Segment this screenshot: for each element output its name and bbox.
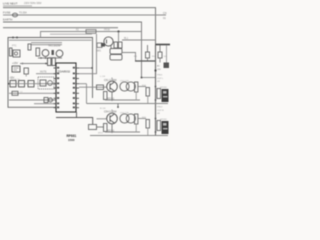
fuse F2 [86, 30, 96, 34]
capacitor C52 [120, 82, 129, 91]
label channel1 row1 [100, 76, 105, 78]
svg-text:PTC: PTC [12, 46, 17, 48]
svg-text:MUTE: MUTE [40, 72, 47, 74]
svg-text:L CH: L CH [100, 76, 105, 78]
svg-text:230V 50Hz 90W: 230V 50Hz 90W [24, 2, 42, 5]
label F2 [76, 30, 79, 32]
wire ch2 collector feed [117, 104, 119, 109]
junction ch2 rail [155, 118, 157, 133]
mosfet Q3 [162, 89, 169, 102]
wire secondary line 2 [31, 44, 62, 46]
regulator U2 [12, 66, 20, 72]
wire ch1 input [79, 86, 107, 88]
wire ch2 link [97, 126, 104, 128]
capacitor C3 [56, 50, 63, 57]
svg-text:C54 3.15W: C54 3.15W [104, 110, 117, 113]
label Q4 [108, 130, 116, 132]
svg-text:IRF630: IRF630 [160, 87, 168, 89]
label FUSE [3, 11, 11, 15]
junction -15V [8, 83, 10, 85]
wire bottom bus [3, 27, 118, 29]
wire R22 stub [135, 124, 137, 132]
svg-text:PR02: PR02 [157, 107, 163, 109]
resistor R24 [157, 121, 161, 131]
svg-text:0R22: 0R22 [98, 133, 104, 135]
wire secondary to right [50, 33, 92, 35]
svg-text:T3.15A: T3.15A [19, 12, 27, 15]
label T3.15A [19, 12, 27, 15]
resistor R2 [19, 81, 25, 87]
wire under rectifier [38, 57, 62, 59]
wire ch1 mid [105, 99, 140, 101]
junction supply feed [154, 69, 156, 71]
wire pin10 net [9, 99, 56, 101]
label T1 [12, 46, 17, 48]
wire Q2 collector stub [111, 78, 113, 82]
label LIVE NEUT [3, 2, 18, 6]
label +15V [12, 62, 18, 65]
wire Q4 emitter [111, 124, 113, 132]
fuse F1 [12, 13, 17, 17]
junction +15V [22, 63, 24, 65]
resistor R13 [146, 88, 150, 104]
svg-text:EARTH: EARTH [3, 18, 12, 22]
capacitor C54 [120, 114, 129, 123]
wire Q1 collector [118, 32, 120, 43]
capacitor C8 [48, 81, 53, 86]
label Q5 [160, 119, 168, 121]
svg-text:4R: 4R [157, 81, 160, 83]
capacitor C4 [24, 68, 28, 77]
wire pin11 net [34, 103, 56, 105]
label R5 mid [152, 56, 156, 58]
junction ch2 feed [117, 106, 119, 108]
wire -15V rail [8, 83, 56, 85]
transistor Q2 [107, 81, 118, 92]
junction dots box top [12, 37, 18, 39]
label C54 C55 [120, 113, 129, 115]
op-amp U1 TDA8932 [56, 63, 76, 112]
wire ch2 right [138, 118, 146, 120]
wire Q2 emitter [111, 92, 113, 100]
wire C5 C6 top [49, 57, 56, 59]
label right texts ch2 [157, 107, 164, 116]
capacitor C5 [48, 58, 51, 66]
svg-text:+15V: +15V [12, 62, 18, 65]
wire ch2 bottom [90, 135, 168, 137]
transformer T1 primary [10, 48, 13, 56]
capacitor C55 [126, 114, 135, 123]
pin numbers right U1 [73, 67, 75, 109]
wire ground under U1 [56, 118, 93, 125]
wire aux speaker feed [166, 45, 168, 63]
svg-text:PR01: PR01 [157, 75, 163, 77]
label -15V [9, 77, 15, 80]
wire earth bus [3, 22, 142, 78]
capacitor C9 [44, 98, 53, 103]
pin numbers left U1 [57, 67, 59, 109]
svg-text:LIVE NEUT: LIVE NEUT [3, 2, 18, 6]
svg-text:FUSE: FUSE [3, 11, 11, 15]
wire live bus [3, 8, 156, 45]
wire ch2 mid [105, 131, 140, 133]
wire Q4 collector stub [111, 110, 113, 114]
transistor Q4 [107, 113, 118, 124]
power supply box PS1 [8, 38, 93, 108]
wire earth rail horizontal [142, 77, 156, 79]
resistor R4 [146, 45, 150, 61]
junction ch1 rail [155, 86, 157, 101]
svg-text:TR1 2x15V: TR1 2x15V [48, 45, 61, 48]
bridge rectifier BR1 [42, 50, 49, 57]
capacitor C10 [114, 42, 118, 48]
resistor R10 [97, 85, 104, 90]
label EARTH [3, 18, 12, 22]
switch SW1 [97, 43, 102, 47]
svg-text:4R: 4R [157, 113, 160, 115]
capacitor C6 [52, 58, 55, 66]
label R20 value [98, 133, 104, 135]
wire +15V [20, 63, 48, 65]
label mute [40, 72, 47, 74]
label RP661 [67, 134, 77, 138]
wire mute net [36, 73, 56, 75]
label mains ratings [24, 2, 42, 5]
wire aux line [41, 32, 142, 38]
wire Q1 emitter [110, 46, 112, 49]
junction pin right top [91, 67, 93, 69]
svg-text:RL1: RL1 [124, 38, 129, 40]
junction Q2 emitter [111, 99, 113, 101]
svg-text:18V: 18V [157, 69, 161, 71]
pin stubs left U1 [54, 68, 57, 108]
label channel1 [104, 79, 117, 82]
label R23 [142, 117, 147, 119]
label R4 left [134, 56, 138, 58]
resistor R12 [135, 82, 138, 92]
capacitor C2 [36, 48, 40, 56]
mosfet Q5 [162, 121, 169, 134]
filter box FL1 [38, 77, 54, 89]
resistor R11 [104, 92, 108, 100]
pin stubs right U1 [76, 68, 79, 108]
resistor R3 [28, 81, 34, 87]
connector right mains [163, 12, 167, 20]
wire relay coil net [122, 39, 156, 41]
resistor R23 [146, 120, 150, 136]
resistor R21 [104, 124, 108, 132]
svg-text:OUT L: OUT L [157, 78, 164, 80]
capacitor C53 [126, 82, 135, 91]
connector CN2 [157, 63, 169, 71]
label bottom bus [104, 30, 110, 32]
capacitor C1 [28, 44, 31, 50]
wire rail thick mid [135, 60, 156, 62]
transformer T1 body [13, 50, 20, 57]
wire U1 ground stub [76, 112, 78, 118]
wire ch1 left drop [86, 84, 88, 104]
wire secondary line 1 [31, 42, 62, 44]
label R13 [142, 85, 147, 87]
svg-text:CN: CN [163, 12, 167, 15]
capacitor C11 [118, 42, 122, 48]
junction C6 [45, 63, 47, 65]
junction aux [117, 30, 119, 32]
label Q3 [160, 87, 168, 89]
label relay coil [124, 38, 129, 40]
wire bus inside box top [9, 39, 92, 41]
relay transistor Q1 [104, 37, 113, 46]
junction rectifier [40, 57, 46, 59]
wire ch1 bottom [87, 103, 169, 105]
wire neutral bus [3, 14, 166, 16]
relay RLY1 contact b [110, 55, 122, 60]
svg-text:OUT R: OUT R [157, 110, 164, 112]
wire ch1 sense [79, 83, 87, 85]
diode D1 [52, 50, 54, 55]
label R5 value [164, 56, 168, 58]
capacitor C7 [40, 80, 46, 86]
junction earth rail [141, 77, 143, 79]
label right texts ch1 [157, 75, 164, 84]
label R1 R2 R3 row [11, 79, 21, 81]
svg-text:AC: AC [157, 65, 160, 68]
wire standby net [79, 34, 97, 74]
diode D2 [12, 91, 23, 95]
resistor R5 [158, 45, 162, 63]
resistor R14 [157, 89, 161, 99]
svg-text:TDA8932: TDA8932 [58, 70, 71, 74]
wire pin9 net [9, 92, 56, 94]
svg-text:IRF630: IRF630 [160, 119, 168, 121]
resistor R22 [135, 114, 138, 124]
resistor R20 [89, 125, 97, 130]
wire live bus thick to right [156, 44, 171, 46]
wire R12 stub [135, 92, 137, 100]
junction Q4 emitter [111, 131, 113, 133]
label channel2 [104, 110, 117, 113]
wire relay contact out [122, 53, 136, 62]
svg-text:1500: 1500 [68, 138, 75, 142]
wire main V rail [155, 45, 157, 136]
label C52 C53 [120, 81, 129, 83]
wire live bus underline [3, 5, 32, 7]
label channel2 row1 [100, 108, 106, 110]
label 1500 [68, 138, 75, 142]
label SW1 [96, 51, 102, 53]
relay RLY1 contact a [110, 49, 122, 54]
wire U1 pin right top [79, 67, 92, 69]
wire ch1 right [138, 86, 146, 88]
label Q2 [108, 98, 116, 100]
wire ch2 input [97, 118, 108, 120]
resistor R1 [10, 81, 16, 87]
label transformer [48, 45, 61, 48]
diode D3 [101, 43, 105, 47]
